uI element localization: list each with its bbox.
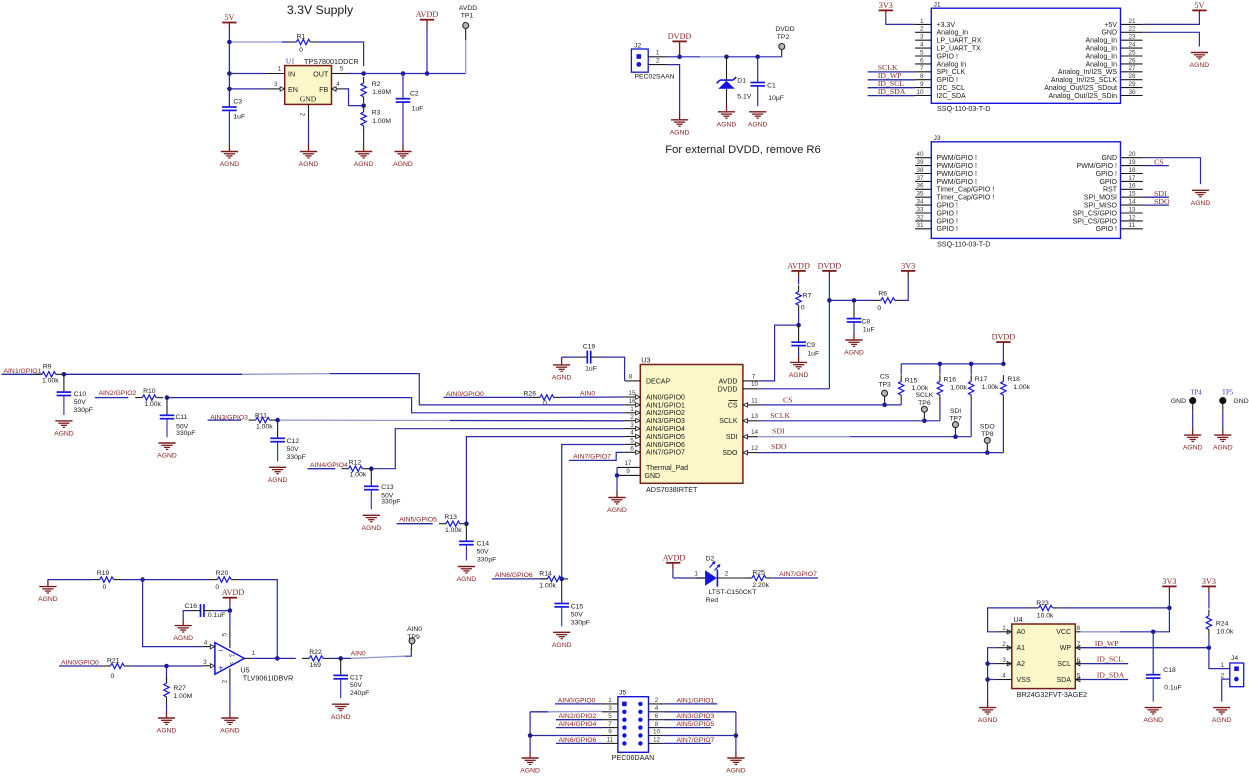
svg-text:PWM/GPIO !: PWM/GPIO ! — [937, 163, 978, 170]
svg-text:SCLK: SCLK — [719, 418, 738, 425]
svg-text:23: 23 — [1129, 34, 1137, 41]
svg-text:5: 5 — [630, 438, 634, 445]
ground C10 AGND — [54, 421, 74, 438]
svg-text:SPI_CS/GPIO: SPI_CS/GPIO — [1073, 210, 1118, 217]
svg-text:GPIO !: GPIO ! — [937, 226, 958, 233]
svg-text:AGND: AGND — [1191, 200, 1211, 207]
junction VSS — [985, 677, 990, 682]
junction R7-C9 — [796, 323, 801, 328]
resistor R19 0 — [93, 570, 121, 591]
ground C13 AGND — [361, 515, 381, 532]
svg-text:0: 0 — [299, 47, 303, 54]
svg-text:AIN0/GPIO0: AIN0/GPIO0 — [61, 659, 99, 666]
svg-text:+5V: +5V — [1104, 22, 1117, 29]
net AIN0/GPIO0 J5 — [555, 697, 602, 704]
svg-text:11: 11 — [607, 737, 614, 744]
svg-text:AIN0: AIN0 — [580, 391, 595, 398]
svg-text:20: 20 — [1129, 151, 1137, 158]
svg-text:1: 1 — [277, 66, 281, 73]
svg-text:SSQ-110-03-T-D: SSQ-110-03-T-D — [937, 239, 990, 248]
svg-text:AGND: AGND — [220, 161, 240, 168]
pin U3-12 SDO wire — [743, 442, 1003, 455]
svg-text:29: 29 — [1129, 81, 1137, 88]
power 3V3 U4 — [1162, 577, 1176, 608]
svg-text:0: 0 — [111, 673, 115, 680]
svg-text:1uF: 1uF — [807, 350, 819, 357]
wire R19 left — [48, 579, 93, 581]
svg-text:10µF: 10µF — [768, 95, 784, 102]
zener D1 5.1V — [717, 57, 752, 106]
svg-text:R27: R27 — [173, 685, 186, 692]
svg-text:AGND: AGND — [1213, 445, 1233, 452]
resistor R13 1.00k — [439, 514, 467, 534]
svg-text:4: 4 — [1002, 673, 1006, 680]
capacitor C2 — [396, 74, 424, 113]
net AIN3/GPIO3 label — [208, 415, 249, 422]
svg-text:25: 25 — [1129, 49, 1137, 56]
capacitor C17 240pF — [333, 658, 369, 698]
svg-text:+: + — [218, 663, 223, 673]
pin U3-7 AVDD wire — [743, 325, 799, 381]
svg-text:AGND: AGND — [268, 477, 288, 484]
svg-text:4: 4 — [336, 81, 340, 88]
svg-text:17: 17 — [624, 460, 632, 467]
svg-text:R20: R20 — [216, 570, 229, 577]
svg-text:AGND: AGND — [220, 728, 240, 735]
svg-text:GPIO !: GPIO ! — [937, 77, 958, 84]
resistor R20 0 — [210, 570, 238, 591]
svg-text:C14: C14 — [477, 540, 490, 547]
svg-text:Analog_Out/I2S_SDout: Analog_Out/I2S_SDout — [1044, 85, 1117, 92]
svg-text:PWM/GPIO !: PWM/GPIO ! — [937, 155, 978, 162]
ground U3 AGND — [607, 475, 627, 514]
svg-text:330pF: 330pF — [381, 499, 400, 506]
resistor R14 1.00k — [539, 570, 568, 589]
svg-text:28: 28 — [1129, 73, 1137, 80]
wire J5-4 gnd — [664, 711, 736, 713]
ground R3 AGND — [354, 132, 374, 168]
svg-text:3V3: 3V3 — [1202, 577, 1216, 586]
pin U3-14 SDI wire — [743, 426, 971, 439]
svg-text:LP_UART_RX: LP_UART_RX — [937, 38, 982, 45]
svg-text:7: 7 — [920, 65, 924, 72]
svg-text:AIN7/GPIO7: AIN7/GPIO7 — [779, 571, 817, 578]
junction R12 — [369, 466, 374, 471]
svg-text:6: 6 — [1077, 657, 1081, 664]
svg-text:AGND: AGND — [393, 161, 413, 168]
ground U4 AGND — [978, 701, 998, 724]
svg-text:1.00k: 1.00k — [350, 472, 367, 479]
svg-text:R11: R11 — [255, 413, 267, 420]
capacitor C10 330pF — [57, 374, 93, 415]
svg-text:ID_WP: ID_WP — [1095, 639, 1119, 648]
svg-text:SCL: SCL — [1057, 661, 1071, 668]
svg-text:2: 2 — [656, 58, 660, 65]
svg-text:9: 9 — [920, 81, 924, 88]
wire J1 GND — [1143, 32, 1200, 46]
resistor R7 — [796, 285, 812, 325]
svg-text:10: 10 — [751, 381, 759, 388]
svg-text:PEC06DAAN: PEC06DAAN — [612, 753, 655, 762]
svg-text:AGND: AGND — [844, 350, 864, 357]
svg-text:3V3: 3V3 — [901, 261, 915, 270]
svg-text:AIN5/GPIO5: AIN5/GPIO5 — [646, 434, 685, 441]
junction R10 — [165, 395, 170, 400]
net AIN0 wire to pin15 — [561, 391, 625, 398]
net CS J3 — [1143, 157, 1169, 166]
pin U5-5 V+ — [222, 611, 230, 648]
capacitor C19 — [562, 343, 625, 381]
wire A1A2VSS rail — [988, 648, 997, 702]
wire OUT — [332, 66, 466, 74]
svg-text:1uF: 1uF — [585, 365, 597, 372]
svg-text:AGND: AGND — [1212, 717, 1232, 724]
svg-text:50V: 50V — [74, 399, 87, 406]
svg-text:IN: IN — [288, 70, 295, 79]
svg-text:2.20k: 2.20k — [752, 582, 769, 589]
svg-text:330pF: 330pF — [287, 454, 306, 461]
svg-text:J4: J4 — [1231, 655, 1238, 662]
svg-text:9: 9 — [626, 468, 630, 475]
svg-text:8: 8 — [920, 73, 924, 80]
ground C1 AGND — [748, 112, 768, 129]
svg-text:D1: D1 — [737, 78, 746, 85]
wire A0 loop — [988, 608, 1032, 632]
net AIN5/GPIO5 label — [397, 516, 438, 523]
junction rail R17 — [969, 362, 974, 367]
wire R20 right — [238, 580, 277, 658]
junction R21-R27 — [164, 664, 169, 669]
net ID_SCL J1 — [868, 79, 916, 88]
svg-text:2: 2 — [655, 697, 659, 704]
svg-text:V+: V+ — [229, 653, 235, 659]
wire R1 left — [229, 41, 289, 43]
resistor R24 10.0k — [1206, 601, 1234, 647]
resistor R1 — [289, 33, 317, 54]
svg-text:LP_UART_TX: LP_UART_TX — [937, 46, 982, 53]
capacitor C15 330pF — [554, 579, 590, 626]
svg-text:5: 5 — [1077, 673, 1081, 680]
svg-text:AVDD: AVDD — [787, 261, 810, 270]
svg-text:−: − — [218, 645, 223, 655]
svg-text:AGND: AGND — [299, 161, 319, 168]
power AVDD D2 — [663, 553, 686, 578]
net AIN0/GPIO0 opamp — [59, 659, 103, 666]
svg-text:AGND: AGND — [157, 453, 177, 460]
svg-text:330pF: 330pF — [571, 619, 590, 626]
svg-text:R18: R18 — [1007, 376, 1020, 383]
junction R19-R20 — [140, 577, 145, 582]
net AIN6/GPIO6 J5 — [556, 737, 602, 744]
svg-text:Analog_In: Analog_In — [1085, 46, 1117, 53]
wire J5-3 gnd — [530, 710, 602, 712]
wire R22-C17 — [330, 649, 411, 658]
svg-text:1uF: 1uF — [863, 327, 875, 334]
wire EN — [229, 81, 280, 89]
svg-text:1.00k: 1.00k — [982, 384, 999, 391]
testpoint TP9 AIN0 — [407, 626, 422, 650]
ground U5 AGND — [220, 712, 240, 735]
svg-text:13: 13 — [1129, 206, 1137, 213]
junction OUT-R2 — [361, 71, 366, 76]
net AIN4/GPIO4 label — [308, 462, 348, 469]
capacitor C16 0.1uF — [183, 603, 230, 620]
net AIN7/GPIO7 J5 — [664, 737, 715, 744]
capacitor C18 0.1uF — [1146, 632, 1182, 702]
svg-text:SDO: SDO — [771, 442, 787, 451]
svg-text:6: 6 — [655, 713, 659, 720]
svg-text:18: 18 — [1129, 167, 1137, 174]
wire AIN6 to pin5 — [562, 445, 625, 579]
wire IN — [229, 66, 284, 74]
svg-text:0: 0 — [103, 584, 107, 591]
capacitor C11 330pF — [160, 398, 196, 438]
svg-text:3: 3 — [608, 705, 612, 712]
svg-text:26: 26 — [1129, 57, 1137, 64]
svg-text:R3: R3 — [372, 110, 381, 117]
svg-text:1.00M: 1.00M — [372, 118, 391, 125]
svg-text:C19: C19 — [583, 343, 596, 350]
svg-text:AIN2/GPIO2: AIN2/GPIO2 — [646, 410, 685, 417]
svg-text:169: 169 — [310, 662, 322, 669]
svg-text:AIN0: AIN0 — [407, 626, 422, 633]
connector J3 SSQ-110-03-T-D — [915, 135, 1143, 248]
net AIN5/GPIO5 J5 — [664, 721, 715, 728]
svg-text:38: 38 — [916, 167, 924, 174]
ground U1 AGND — [299, 145, 319, 168]
opamp U5 TLV9061IDBVR — [210, 643, 293, 683]
svg-text:SDO: SDO — [980, 423, 995, 430]
svg-text:6: 6 — [920, 57, 924, 64]
svg-text:RST: RST — [1103, 187, 1118, 194]
svg-text:R12: R12 — [349, 460, 362, 467]
svg-text:3: 3 — [920, 34, 924, 41]
svg-text:15: 15 — [1129, 191, 1137, 198]
svg-text:SCLK: SCLK — [770, 411, 790, 420]
power 3V3 J1 — [879, 1, 916, 25]
svg-text:J1: J1 — [934, 2, 941, 9]
pin U3-13 SCLK wire — [743, 411, 940, 423]
junction TP7 — [953, 434, 958, 439]
testpoint TP2 DVDD — [775, 26, 794, 57]
svg-text:GND: GND — [1101, 30, 1117, 37]
svg-text:AVDD: AVDD — [719, 379, 738, 386]
power 5V J1 — [1143, 1, 1207, 25]
svg-text:AIN0: AIN0 — [351, 650, 366, 657]
wire R21 to +input — [131, 659, 210, 666]
power DVDD pullups — [992, 333, 1016, 364]
testpoint TP1 AVDD — [459, 5, 477, 74]
svg-text:CS: CS — [728, 402, 738, 409]
ground C11 AGND — [157, 443, 177, 460]
svg-text:5: 5 — [340, 66, 344, 73]
junction J5 left — [528, 733, 533, 738]
net AIN6/GPIO6 label — [492, 572, 547, 579]
svg-text:VCC: VCC — [1056, 629, 1071, 636]
svg-text:ID_SDA: ID_SDA — [878, 87, 906, 96]
svg-text:14: 14 — [1129, 199, 1137, 206]
svg-text:AIN6/GPIO6: AIN6/GPIO6 — [495, 572, 533, 579]
svg-text:5V: 5V — [1194, 1, 1204, 10]
wire AVDD-D2 — [673, 571, 705, 578]
resistor R17 1.00k — [969, 375, 1000, 437]
svg-text:3: 3 — [630, 422, 634, 429]
svg-text:AGND: AGND — [726, 768, 746, 775]
svg-text:3: 3 — [203, 659, 207, 666]
junction R23-3V3 — [1167, 606, 1172, 611]
resistor R27 1.00M — [164, 666, 193, 712]
svg-text:GND: GND — [1101, 155, 1117, 162]
svg-text:50V: 50V — [477, 548, 490, 555]
svg-text:+3.3V: +3.3V — [937, 22, 956, 29]
svg-text:1uF: 1uF — [412, 106, 424, 113]
svg-text:1.00k: 1.00k — [42, 377, 59, 384]
svg-text:DVDD: DVDD — [718, 386, 738, 393]
net ID_SDA U4 — [1081, 670, 1128, 679]
svg-text:1: 1 — [694, 571, 698, 578]
svg-text:SDO: SDO — [722, 450, 738, 457]
wire R24-J4 — [1209, 648, 1230, 669]
ground C8 AGND — [844, 322, 864, 357]
svg-text:GPIO: GPIO — [1099, 179, 1117, 186]
junction DVDD rail — [827, 298, 832, 303]
capacitor C1 10uF — [750, 57, 784, 106]
junction EN — [227, 87, 232, 92]
svg-text:AVDD: AVDD — [663, 553, 686, 562]
wire J4-2 gnd — [1222, 679, 1230, 702]
svg-text:36: 36 — [916, 183, 924, 190]
svg-text:2: 2 — [1221, 672, 1225, 679]
svg-text:AGND: AGND — [978, 717, 998, 724]
svg-text:AGND: AGND — [1143, 717, 1163, 724]
testpoint TP8 SDO — [980, 423, 995, 452]
svg-text:0.1uF: 0.1uF — [1164, 685, 1181, 692]
pin J2-1 wire — [648, 49, 679, 56]
capacitor C13 330pF — [364, 469, 400, 510]
connector J2 PEC02SAAN — [631, 43, 674, 81]
svg-text:4: 4 — [655, 705, 659, 712]
svg-text:AGND: AGND — [607, 507, 627, 514]
svg-text:R15: R15 — [905, 377, 918, 384]
wire AIN1 to pin16 — [64, 374, 625, 405]
svg-text:Analog In: Analog In — [937, 61, 967, 68]
resistor R26 — [524, 391, 561, 407]
svg-text:R23: R23 — [1036, 600, 1049, 607]
pin J2-2 wire — [648, 58, 679, 108]
svg-text:I2C_SCL: I2C_SCL — [937, 85, 966, 92]
wire VCC — [1081, 608, 1170, 632]
junction VCC-C18 — [1151, 630, 1156, 635]
ground TP4 AGND — [1183, 429, 1203, 452]
note for external DVDD — [665, 144, 820, 156]
svg-text:34: 34 — [916, 199, 924, 206]
svg-text:R17: R17 — [975, 376, 988, 383]
wire AIN2 to pin1 — [167, 398, 625, 413]
junction OUT-AVDD — [425, 71, 430, 76]
power 3V3 R6 — [901, 261, 915, 277]
pin U5-1 output — [244, 650, 295, 659]
ground J1 AGND — [1190, 53, 1210, 70]
svg-text:330pF: 330pF — [477, 556, 496, 563]
svg-text:R1: R1 — [297, 33, 306, 40]
net AIN7/GPIO7 D2 — [773, 571, 818, 578]
svg-text:1.00k: 1.00k — [144, 401, 161, 408]
svg-text:AIN0/GPIO0: AIN0/GPIO0 — [646, 394, 685, 401]
capacitor C8 — [847, 300, 875, 333]
svg-text:Analog_Out/I2S_SDin: Analog_Out/I2S_SDin — [1049, 93, 1118, 100]
svg-text:PWM/GPIO !: PWM/GPIO ! — [937, 179, 978, 186]
power AVDD U3 — [787, 261, 810, 284]
net SDO J3 — [1143, 197, 1170, 206]
svg-text:DVDD: DVDD — [818, 261, 842, 270]
testpoint TP7 SDI — [949, 408, 962, 437]
svg-text:1.00k: 1.00k — [1013, 384, 1030, 391]
svg-text:3: 3 — [274, 81, 278, 88]
ground C3 AGND — [220, 110, 240, 168]
ground J5 left AGND — [520, 752, 540, 775]
junction AVDD-C16 — [228, 608, 233, 613]
svg-text:1: 1 — [656, 49, 660, 56]
svg-text:R2: R2 — [372, 81, 381, 88]
junction TP6 — [922, 419, 927, 424]
capacitor C9 — [791, 325, 819, 357]
svg-text:AGND: AGND — [717, 121, 737, 128]
power 3V3 R24 — [1202, 577, 1216, 602]
ground C14 AGND — [457, 567, 477, 584]
svg-text:R16: R16 — [944, 377, 957, 384]
svg-text:SPI_MISO: SPI_MISO — [1084, 203, 1118, 210]
svg-text:0: 0 — [215, 584, 219, 591]
svg-text:5V: 5V — [224, 13, 234, 22]
svg-text:AGND: AGND — [670, 129, 690, 136]
power 5V — [222, 13, 236, 29]
svg-text:12: 12 — [653, 737, 661, 744]
svg-text:AIN3/GPIO3: AIN3/GPIO3 — [646, 418, 685, 425]
svg-text:0: 0 — [801, 304, 805, 311]
svg-text:Analog_In: Analog_In — [1085, 38, 1117, 45]
svg-text:1.00k: 1.00k — [256, 424, 273, 431]
power DVDD U3 — [818, 261, 842, 388]
connector J5 PEC06DAAN — [602, 690, 664, 762]
svg-text:11: 11 — [1129, 222, 1136, 229]
power AVDD out — [416, 10, 439, 73]
title 3.3V Supply — [287, 3, 354, 17]
connector J4 — [1221, 655, 1244, 687]
svg-text:R22: R22 — [309, 649, 322, 656]
wire DVDD-C8-R6 — [829, 299, 873, 301]
net ID_SCL U4 — [1081, 655, 1128, 664]
svg-text:R6: R6 — [878, 290, 887, 297]
junction TP3 — [882, 403, 887, 408]
regulator U1 TPS78001DDCR — [280, 57, 359, 105]
ground C15 AGND — [552, 632, 572, 649]
svg-text:SPI_CLK: SPI_CLK — [937, 69, 966, 76]
ground D1 AGND — [717, 105, 737, 128]
pin U3-17 thermal — [617, 460, 640, 468]
svg-text:6: 6 — [630, 446, 634, 453]
svg-text:7: 7 — [1077, 641, 1081, 648]
svg-text:2: 2 — [725, 571, 729, 578]
svg-text:7: 7 — [752, 373, 756, 380]
svg-text:GPIO !: GPIO ! — [937, 203, 958, 210]
svg-text:DECAP: DECAP — [646, 379, 670, 386]
svg-text:CS: CS — [880, 374, 890, 381]
svg-text:SPI_MOSI: SPI_MOSI — [1084, 195, 1117, 202]
svg-text:PWM/GPIO !: PWM/GPIO ! — [1077, 163, 1118, 170]
wire FB — [332, 81, 364, 105]
svg-text:R25: R25 — [752, 570, 765, 577]
svg-text:TP5: TP5 — [1222, 390, 1234, 397]
